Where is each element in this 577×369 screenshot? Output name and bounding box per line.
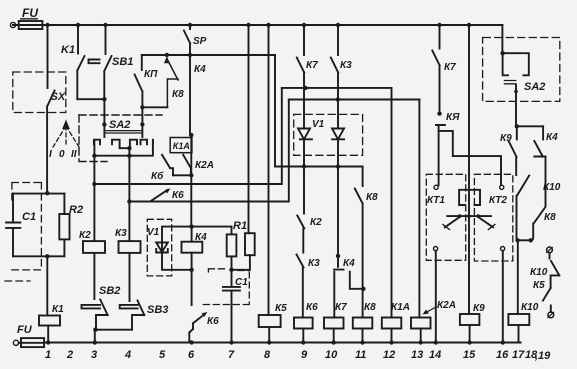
capacitor C1 left (6, 194, 20, 257)
svg-text:К8: К8 (172, 89, 184, 100)
svg-text:9: 9 (301, 349, 308, 361)
switch SA2 left brackets (94, 140, 100, 145)
svg-text:К6: К6 (172, 190, 184, 201)
svg-text:К1А: К1А (173, 141, 190, 151)
node terminal 15 (467, 340, 471, 344)
contact K7 right (432, 25, 439, 114)
pushbutton SB2 (82, 253, 108, 330)
thyristor V1 branch (162, 227, 192, 270)
terminal K10 circle top (547, 247, 553, 253)
node terminal 12 (389, 340, 393, 344)
svg-text:K1: K1 (61, 44, 75, 56)
node bus-SP (188, 23, 192, 27)
wire K5 column (268, 25, 270, 315)
svg-text:C1: C1 (22, 211, 36, 223)
wire right bar (518, 239, 531, 241)
wire R1 bottoms (232, 255, 250, 270)
svg-text:К5: К5 (275, 303, 287, 314)
relay coil K1 (39, 316, 60, 326)
svg-text:К4: К4 (343, 258, 355, 269)
wire SA2 mid to K3 coil (128, 148, 130, 241)
svg-text:К10: К10 (521, 302, 539, 313)
wire KP-K8 bar (142, 106, 167, 108)
svg-text:SA2: SA2 (524, 81, 545, 93)
contact K3 top (331, 25, 338, 100)
node bus-K7a (302, 23, 306, 27)
svg-text:К7: К7 (306, 60, 318, 71)
svg-text:К8: К8 (366, 192, 378, 203)
wire KT2 bottom to terminal 16 (502, 251, 504, 343)
svg-text:Кб: Кб (151, 170, 164, 182)
svg-text:15: 15 (463, 349, 476, 361)
wire rail y87.9 K1A feed (282, 87, 392, 89)
svg-text:К10: К10 (530, 267, 548, 278)
contact K10 right (517, 176, 530, 241)
svg-text:SA2: SA2 (109, 119, 130, 131)
wire bar to SA2 right leg (141, 107, 143, 137)
relay coil K2 (83, 241, 105, 253)
svg-text:К2: К2 (79, 230, 91, 241)
wire K6 coil to bus (302, 329, 304, 343)
node terminal 14 (434, 340, 438, 344)
thyristor V1 symbol (156, 243, 168, 253)
svg-text:8: 8 (264, 349, 271, 361)
svg-text:К2: К2 (310, 217, 322, 228)
KT actuator bar (447, 215, 491, 217)
switch SA2 right bracket (503, 53, 529, 75)
svg-text:К3: К3 (340, 60, 352, 71)
terminal KT2 top (500, 185, 504, 189)
contact K8 mid (355, 167, 363, 318)
node terminal 13 (419, 340, 423, 344)
capacitor C1 right (223, 270, 240, 343)
wire to K10 coil (517, 240, 519, 314)
wire bottom bus (44, 342, 521, 344)
svg-text:12: 12 (383, 349, 395, 361)
contact K10 far right (550, 253, 560, 288)
contact K3 mid (297, 255, 304, 318)
relay coil K9 (460, 314, 480, 325)
svg-text:0: 0 (59, 149, 65, 160)
node bus-K3a (336, 23, 340, 27)
contact K4 right (534, 126, 545, 206)
diode V1a (298, 88, 312, 167)
node terminal 6 (189, 340, 193, 344)
svg-text:К10: К10 (543, 182, 561, 193)
wire KR to KT2 (439, 131, 501, 185)
node bus-KT (467, 23, 471, 27)
svg-text:II: II (71, 149, 77, 160)
contact SX (47, 91, 55, 193)
contact K4 mid (334, 256, 344, 318)
KT actuator blades (445, 217, 493, 227)
wire SP main column down (190, 55, 191, 227)
pushbutton SB3 (120, 253, 145, 330)
node bus-SB1 (103, 23, 107, 27)
svg-text:К7: К7 (335, 302, 347, 313)
node bus-K1 (76, 23, 80, 27)
terminal K5 circle bottom (548, 312, 554, 318)
svg-text:К1: К1 (52, 304, 64, 315)
svg-text:К2А: К2А (437, 300, 456, 311)
svg-text:C1: C1 (235, 277, 248, 288)
wire long rail y201 (129, 100, 288, 202)
switch SA2 left bridge bars (106, 131, 142, 133)
node terminal 1 (46, 340, 50, 344)
wire to K1 coil (46, 256, 48, 315)
switch SA2 left dashed box (79, 114, 162, 116)
contact K9 right (509, 126, 517, 175)
svg-text:К4: К4 (194, 64, 206, 75)
svg-text:К8: К8 (544, 212, 556, 223)
wire K1A coil column (391, 88, 393, 318)
svg-text:К7: К7 (444, 62, 456, 73)
wire SB1 down to SA2 (103, 99, 105, 137)
svg-text:FU: FU (17, 324, 33, 336)
node terminal 10 (332, 340, 336, 344)
dashed box SX (13, 72, 66, 113)
terminal KT1 bottom (434, 247, 438, 251)
contact KP (135, 55, 143, 107)
svg-text:I: I (49, 149, 52, 160)
wire K1 column (77, 25, 79, 54)
contact K8 right (531, 208, 545, 241)
relay coil K2A (411, 318, 431, 329)
wire K4 coil stubs (191, 227, 193, 270)
wire contact bar to main column (173, 174, 191, 176)
fuse FU top (19, 21, 43, 29)
wire K2A coil column (418, 100, 420, 318)
node terminal 8 (267, 340, 271, 344)
wire K1-SB1 junction bar (77, 98, 104, 100)
svg-text:SB1: SB1 (112, 56, 133, 68)
diode V1b (332, 100, 344, 167)
wire top bus (13, 24, 502, 26)
svg-text:FU: FU (22, 6, 38, 20)
svg-text:,19: ,19 (534, 350, 551, 362)
svg-text:КТ2: КТ2 (489, 195, 507, 206)
svg-text:6: 6 (188, 349, 195, 361)
svg-text:К4: К4 (546, 132, 558, 143)
contact K6 bottom (189, 270, 205, 343)
relay coil K5 (259, 315, 281, 327)
relay coil K10 (508, 314, 529, 325)
svg-text:К2А: К2А (195, 160, 214, 171)
wire rail y166 (275, 166, 363, 168)
svg-text:SX: SX (51, 91, 66, 103)
wire SA2 to K2 coil (93, 156, 95, 241)
svg-text:3: 3 (91, 349, 97, 361)
svg-text:КТ1: КТ1 (427, 195, 445, 206)
contact K2 mid (297, 167, 304, 253)
relay coil K6 (294, 318, 313, 329)
wire rail y55 corner down (274, 55, 276, 167)
svg-text:К5: К5 (533, 280, 545, 291)
svg-text:4: 4 (124, 349, 131, 361)
contact SP (184, 25, 190, 55)
wire K4 z-link (350, 272, 364, 289)
svg-text:К3: К3 (115, 228, 127, 239)
node terminal 7 (229, 340, 233, 344)
svg-text:13: 13 (411, 349, 423, 361)
svg-text:К9: К9 (473, 303, 485, 314)
relay coil K4 (182, 242, 203, 253)
switch SA2 right bridge (504, 81, 515, 84)
contact K2A (183, 155, 191, 176)
svg-text:КП: КП (144, 69, 158, 80)
contact K5 far right (543, 288, 551, 312)
wire SB2-SB3 bar to terminal 3 (95, 330, 132, 343)
svg-text:5: 5 (159, 349, 166, 361)
fuse FU bottom (13, 340, 18, 345)
wire K9-K4 bar (517, 125, 543, 127)
box K1A label frame (170, 138, 192, 153)
node bus-SX (45, 23, 49, 27)
svg-text:1: 1 (45, 349, 51, 361)
resistor R1b (245, 233, 255, 255)
KT actuator plunger (459, 190, 480, 205)
dashed box SA2 right (483, 38, 560, 102)
contact K1 (77, 56, 84, 99)
svg-text:К8: К8 (364, 302, 376, 313)
node terminal 11 (360, 340, 364, 344)
resistor R1a (227, 234, 237, 256)
wire K4 node to R1 (192, 226, 232, 228)
contact K6 diag on rails (152, 190, 168, 201)
dashed box V1 diodes (294, 114, 363, 155)
svg-text:10: 10 (325, 349, 338, 361)
wire SB1 column (105, 25, 107, 54)
node bus-R1 (246, 23, 250, 27)
wire R1b to top bus (249, 25, 250, 233)
dashed box V1 (147, 219, 171, 276)
svg-text:11: 11 (355, 349, 366, 361)
terminal KT2 bottom (501, 247, 505, 251)
indicator I-0-II arrow (53, 126, 79, 147)
contact K8 arrow (167, 62, 178, 108)
dashed box C1 right (201, 269, 249, 305)
wire bus corner down right (501, 25, 503, 53)
svg-text:SP: SP (193, 36, 207, 47)
svg-text:V1: V1 (312, 119, 325, 130)
svg-text:SB2: SB2 (99, 285, 120, 297)
wire SA2 right down (515, 85, 517, 127)
relay coil K1A (382, 318, 402, 329)
contact KR bar (436, 125, 445, 185)
svg-text:16: 16 (496, 349, 509, 361)
box KT2 dashed (474, 174, 512, 261)
wire actuator to K9 coil (468, 216, 470, 314)
node bus-K5 (266, 23, 270, 27)
node terminal 3 (93, 340, 97, 344)
svg-text:SB3: SB3 (147, 304, 168, 316)
svg-text:К6: К6 (306, 302, 318, 313)
svg-text:V1: V1 (147, 227, 160, 238)
svg-text:2: 2 (66, 349, 73, 361)
relay coil K8 (353, 318, 373, 329)
wire top rail y55 (142, 54, 275, 56)
wire rail y99.5 K2A feed (289, 99, 420, 101)
wire KT actuator column (468, 25, 470, 216)
svg-text:К3: К3 (308, 258, 320, 269)
terminal top-left circle (10, 22, 15, 27)
svg-text:R2: R2 (69, 204, 83, 216)
wire diode2 column to K4 node (337, 167, 339, 256)
contact K1A (162, 155, 173, 176)
wire C1R2 bottom bar (13, 255, 64, 257)
svg-text:17: 17 (512, 349, 525, 361)
svg-text:К9: К9 (500, 133, 512, 144)
node bus-K7b (437, 23, 441, 27)
resistor R2 (59, 214, 69, 239)
relay coil K3 (119, 241, 141, 253)
svg-text:К1А: К1А (391, 302, 410, 313)
switch SA2 left cup (94, 141, 152, 156)
wire long rail y184 (94, 88, 281, 184)
svg-text:R1: R1 (233, 220, 247, 232)
dashed box C1 left (5, 183, 41, 282)
svg-text:14: 14 (429, 349, 441, 361)
wire SX column (47, 25, 49, 88)
svg-text:7: 7 (228, 349, 235, 361)
svg-text:КЯ: КЯ (446, 112, 460, 123)
wire C1R2 top bar (13, 193, 64, 195)
svg-text:К6: К6 (207, 316, 219, 327)
relay coil K7 (324, 318, 344, 329)
svg-text:К4: К4 (195, 232, 207, 243)
pushbutton SB1 (89, 56, 112, 99)
terminal KT1 top (434, 185, 438, 189)
contact K7 top (297, 25, 304, 88)
box KT1 dashed (426, 174, 465, 260)
node terminal 9 (301, 340, 305, 344)
node terminal 16 (501, 340, 505, 344)
wire KT1 bottom to terminal 14 (435, 251, 437, 343)
wire SX to C1R2 node (46, 193, 48, 194)
